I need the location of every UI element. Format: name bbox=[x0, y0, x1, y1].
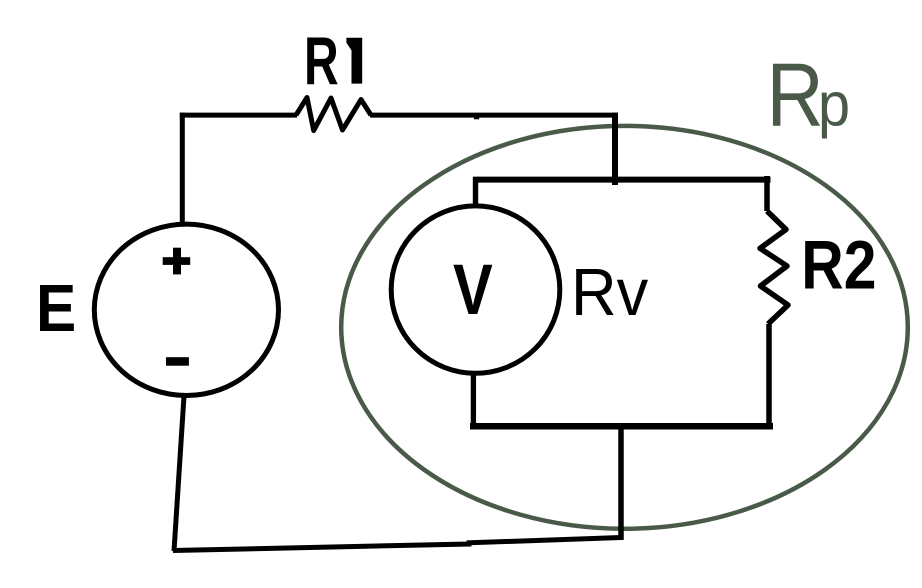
svg-text:V: V bbox=[453, 250, 493, 329]
wire left vertical bbox=[180, 113, 185, 224]
wire bottom horizontal bbox=[173, 538, 621, 551]
resistor R2 top wire bbox=[764, 176, 770, 211]
svg-text:R: R bbox=[767, 44, 824, 145]
top bar of parallel group bbox=[473, 177, 771, 183]
junction nub on top wire bbox=[474, 115, 479, 119]
stub voltmeter bottom bbox=[471, 374, 476, 427]
wire top left horizontal bbox=[180, 113, 297, 118]
resistor R1 bbox=[296, 98, 371, 131]
minus terminal of E bbox=[166, 357, 189, 366]
resistor R2 zigzag bbox=[760, 211, 788, 324]
voltmeter V (circle) bbox=[391, 206, 560, 373]
svg-text:E: E bbox=[36, 272, 76, 345]
svg-text:p: p bbox=[818, 70, 850, 139]
wire right vertical from top wire to top bar bbox=[612, 113, 618, 185]
wire bottom left vertical bbox=[174, 396, 184, 551]
bottom bar of parallel group bbox=[470, 423, 773, 430]
svg-text:R2: R2 bbox=[801, 226, 876, 303]
node Rp boundary ellipse (parallel group) bbox=[341, 126, 908, 529]
resistor R2 bottom wire bbox=[766, 324, 772, 426]
wire bottom right vertical bbox=[618, 426, 624, 540]
svg-text:R: R bbox=[304, 24, 339, 99]
voltage source E (circle) bbox=[94, 224, 278, 395]
plus terminal of E bbox=[163, 257, 191, 265]
wire top right horizontal bbox=[370, 113, 618, 118]
svg-text:Rv: Rv bbox=[571, 254, 649, 329]
stub from top bar to voltmeter bbox=[473, 177, 478, 205]
